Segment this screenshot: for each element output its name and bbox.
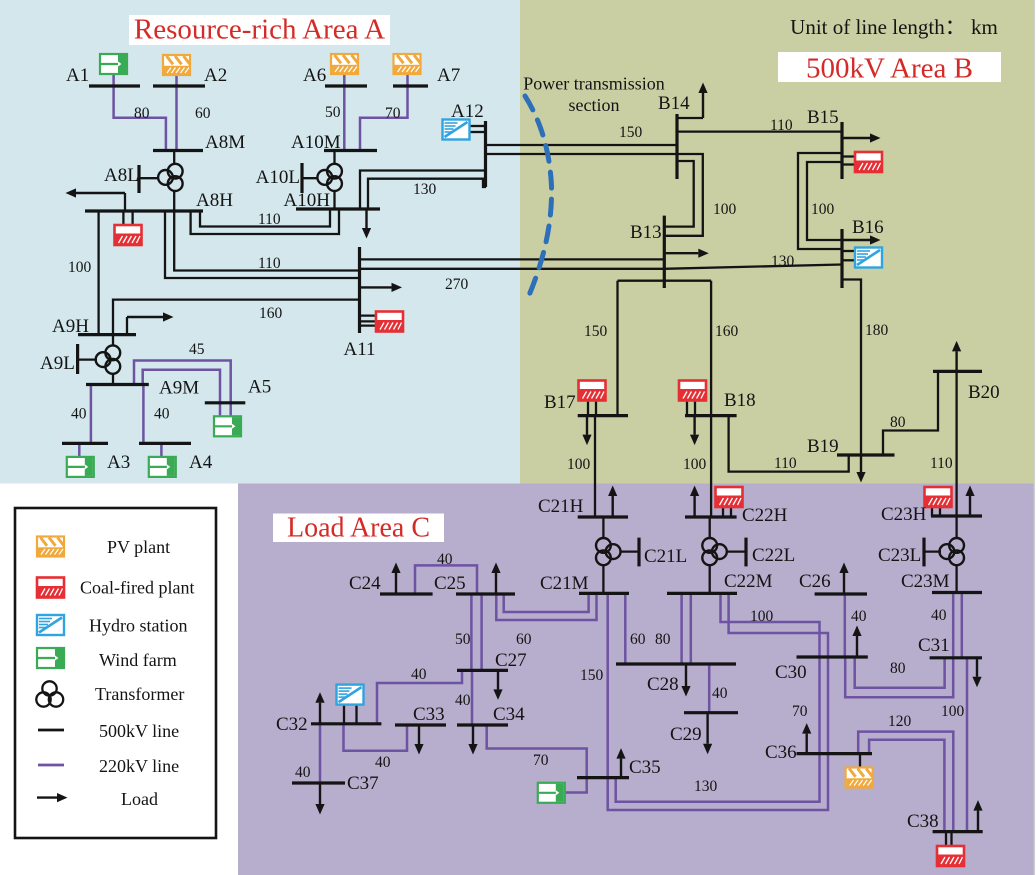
svg-text:Load: Load [121,789,158,809]
svg-text:45: 45 [189,341,205,358]
coal-fired plant at B18 [679,381,706,401]
bus C22H [685,515,737,518]
load arrow on C26 [839,563,848,595]
load arrow on B19 (down) [856,455,865,483]
wire C30 to C31 circuit inner (80, 220kV) [855,657,945,688]
wind farm at A4 [149,457,176,477]
right edge line [1034,0,1035,875]
svg-text:40: 40 [712,685,728,702]
bus C28 [616,662,736,665]
svg-text:Wind farm: Wind farm [99,650,177,670]
bus C23L [922,538,925,567]
svg-text:B20: B20 [968,382,1000,403]
svg-text:100: 100 [683,456,707,473]
wire C31 to C38 (100, 220kV) [966,658,969,832]
bus C21M [579,592,629,595]
svg-text:40: 40 [71,406,87,423]
load arrow on C27 (down) [493,670,502,700]
load arrow on B16 [842,235,881,244]
load arrow on C22H [690,486,699,518]
svg-text:C38: C38 [907,811,939,832]
hydro station at B16 [855,248,882,268]
background Area C (purple) [238,484,1034,875]
wind farm at A3 [67,457,94,477]
legend transformer icon [36,681,63,706]
bus A8M [153,149,203,152]
bus B19 [837,453,895,456]
bus B20 [933,370,982,373]
svg-text:section: section [569,95,620,115]
wire B18 to B19 (110, 500kV) [729,416,849,472]
svg-text:A8H: A8H [196,190,233,211]
load arrow on C32 [315,692,324,724]
svg-text:A10M: A10M [291,132,341,153]
svg-text:C22H: C22H [742,505,788,526]
svg-text:100: 100 [713,201,737,218]
wire C25 to C27 circuit 1 (50, 220kV) [470,594,473,670]
wire B14 to B13 circuit 1 (100, 500kV) [664,161,693,227]
bus A5 [205,401,246,404]
wire A10M bus to transformer A10 [333,151,335,166]
svg-text:C28: C28 [647,674,679,695]
load arrow on C37 (down) [315,783,324,815]
wire A3 bus to wind farm stub [78,443,81,457]
svg-text:110: 110 [930,455,953,472]
bus A4 [139,442,191,445]
wire A1 to A8M (80, 220kV) [114,74,166,151]
background Area B (olive) [520,0,1034,484]
svg-text:A8L: A8L [104,165,139,186]
svg-text:C36: C36 [765,742,797,763]
wire transformer C23 to C23M [955,564,957,593]
wire C21H to transformer C21 [602,517,604,539]
bus C21L [637,538,640,567]
wire A8H to coal plant stub 1 [122,211,124,225]
wire A8H to A10H circuit 2 (500kV) [191,209,339,234]
svg-text:C29: C29 [670,724,702,745]
bus C30 [797,655,868,658]
wire B18 to C22H (100, 500kV) [710,416,712,517]
svg-text:150: 150 [580,667,604,684]
legend wind farm icon [37,648,64,668]
wire A2 to A8M (60, 220kV) [175,75,178,151]
wire C32 hydro stub 1 [343,705,345,724]
bus C23M [932,591,982,594]
svg-text:60: 60 [195,105,211,122]
bus C22L [744,538,747,567]
coal-fired plant at C22H [716,487,743,507]
wire C24 to C25 (40, 220kV) [415,565,477,594]
svg-text:160: 160 [259,305,283,322]
svg-text:B13: B13 [630,222,662,243]
load arrow on B20 [952,341,961,372]
PV plant at A2 [163,55,190,75]
bus C38 [933,830,983,833]
wire B13 to B17/B18 header (500kV) [618,280,712,282]
legend box [15,508,216,838]
bus C35 [577,776,629,779]
load arrow on C31 (down) [972,658,981,688]
svg-text:Coal-fired plant: Coal-fired plant [80,578,194,598]
load arrow on C28 (down) [681,664,690,697]
svg-text:150: 150 [619,124,643,141]
load arrow on C35 [616,748,625,778]
bus A1 [89,84,140,87]
svg-text:80: 80 [655,631,671,648]
svg-text:40: 40 [437,551,453,568]
wire A9H bus to transformer A9 [112,335,114,346]
svg-text:40: 40 [455,692,471,709]
load arrow on C21H [608,486,617,518]
svg-text:50: 50 [325,104,341,121]
svg-text:100: 100 [750,608,774,625]
bus B18 [685,414,737,417]
wire B16 to B19 (180, 500kV) [842,280,861,456]
wire A10H to A12 circuit 1 (130, 500kV) [360,171,486,210]
svg-text:110: 110 [774,455,797,472]
wire B17 to C21H (100, 500kV) [594,416,596,517]
bus C25 [456,592,515,595]
hydro station at C32 [337,685,364,705]
coal-fired plant at C23H [925,487,952,507]
svg-text:70: 70 [792,703,808,720]
legend 500kV line sample [38,729,64,732]
bus A2 [153,84,205,87]
bus A8L [137,165,140,193]
wire C21M to C28 (60, 220kV) [624,593,627,664]
power transmission section dashed curve [525,96,552,300]
svg-text:A12: A12 [451,101,484,122]
wire B18 coal stub 2 [694,401,696,416]
wire transformer C23 to C23L bar [924,550,941,552]
svg-text:B18: B18 [724,390,756,411]
wire A7 to A10M (70, 220kV) [360,75,408,151]
svg-text:80: 80 [890,414,906,431]
bus B15 [840,122,843,179]
svg-text:C31: C31 [918,635,950,656]
wire A8H riser to left load [124,193,126,211]
wire B17 coal stub 1 [587,401,589,416]
wire C38 coal stub 1 [945,832,947,846]
wind farm at A5 [214,416,241,436]
wire A9M to A5 circuit 2 (220kV) [143,370,220,417]
wire transformer C21 to C21L bar [620,550,639,552]
wire C32 hydro stub 2 [355,705,357,724]
wire B15 coal stub 1 [842,155,855,157]
wire A9L bar to transformer A9 [78,358,97,360]
bus C26 [815,592,867,595]
coal-fired plant at B17 [579,381,606,401]
svg-text:PV plant: PV plant [107,537,170,557]
bus A11 [358,247,361,333]
svg-text:B19: B19 [807,436,839,457]
svg-text:100: 100 [941,703,965,720]
wire B16 hydro stub 2 [842,259,855,261]
wire C28 to C29 (40, 220kV) [708,664,711,713]
svg-text:C37: C37 [347,773,379,794]
bus A12 [484,121,487,187]
wire A12 to B14-B13 circuit 2 (500kV) [486,154,703,236]
svg-text:50: 50 [455,631,471,648]
svg-text:C27: C27 [495,650,527,671]
bus A6 [325,84,367,87]
bus C34 [457,723,508,726]
svg-text:C21M: C21M [540,573,589,594]
title box Area B [778,52,1001,82]
wire header to B18 (160, 500kV) [710,281,712,416]
wire C27 to C34 (40, 220kV) [471,670,474,725]
svg-text:220kV line: 220kV line [99,756,179,776]
wire A11 coal stub 1 [360,314,376,316]
svg-text:40: 40 [931,607,947,624]
wire A11 coal stub 2 [360,320,376,322]
transformer A10 [317,164,342,191]
svg-text:C21H: C21H [538,496,584,517]
svg-text:A4: A4 [189,452,213,473]
wire A9M to A5 circuit 1 (45, 220kV) [134,361,231,417]
svg-text:Resource-rich Area A: Resource-rich Area A [134,14,385,46]
svg-text:C21L: C21L [644,546,687,567]
svg-text:Load Area C: Load Area C [287,513,430,544]
load arrow on A10H (down) [362,209,371,239]
wire B14 riser to load [677,117,703,119]
load arrow on C23H [965,486,974,517]
svg-text:C22L: C22L [752,545,795,566]
wire C27 to C32 (40, 220kV) [377,670,462,723]
svg-text:A10L: A10L [256,167,300,188]
bus B14 [675,114,678,179]
wire C36 to C38 circuit outer (120, 220kV) [858,732,953,832]
wire A6 to A10M (50, 220kV) [343,75,346,151]
wire C23M through C31 to C30 circuit outer (40/80, 220kV) [845,593,953,698]
title box Load Area C [273,514,444,543]
PV plant at C36 [846,768,873,788]
wire transformer C22 to C22M [709,564,711,593]
load arrow on B17 (down) [582,416,591,446]
legend load arrow sample [37,793,68,802]
wire C25 to C21M circuit inner (220kV) [504,593,589,612]
load arrow on B15 [842,133,881,142]
svg-text:A11: A11 [344,339,376,360]
bus A9L [76,344,79,374]
svg-text:130: 130 [771,253,795,270]
load arrow on C25 [491,563,500,595]
bus C37 [292,781,345,784]
bus C33 [395,723,446,726]
PV plant at A7 [394,54,421,74]
load arrow on C34 (down) [468,725,477,755]
svg-text:C30: C30 [775,662,807,683]
wire C23M to C31 (40, 220kV) [961,593,964,658]
svg-text:C35: C35 [629,757,661,778]
wire B15 coal stub 2 [842,163,855,165]
svg-text:A8M: A8M [205,132,245,153]
svg-text:70: 70 [533,752,549,769]
transformer A8 [158,164,183,191]
svg-text:A10H: A10H [284,190,331,211]
svg-text:70: 70 [385,105,401,122]
bus B13 [663,216,666,288]
svg-text:120: 120 [888,713,912,730]
bus C36 [797,752,873,755]
wire A9H to A11 (160, 500kV) [113,300,360,335]
load arrow on A8H (left) [66,188,126,197]
wire A8H to A9H (100, 500kV) [97,211,99,335]
legend 220kV line sample [38,764,64,767]
wire C22H to transformer C22 [709,517,711,539]
wire C35 long loop via C30 to C22M (130/100, 220kV) [616,593,820,801]
svg-text:C23H: C23H [881,504,927,525]
svg-text:130: 130 [694,778,718,795]
wire B16 hydro stub 1 [842,250,855,252]
transformer C23 [940,538,964,565]
svg-text:40: 40 [411,666,427,683]
coal-fired plant at B15 [855,152,882,172]
svg-text:110: 110 [770,117,793,134]
PV plant at A6 [331,54,358,74]
background Area A (blue) [0,0,520,484]
wire C32 to C33 (40, 220kV) [344,724,408,751]
wire header to B17 (150, 500kV) [616,281,618,416]
bus A10L [300,163,303,193]
svg-text:60: 60 [630,631,646,648]
wire A11 coal stub 3 [360,324,376,326]
svg-text:C24: C24 [349,573,381,594]
wire A8H to A11 circuit 2 (500kV) [165,211,360,278]
svg-text:C22M: C22M [724,571,773,592]
svg-text:500kV line: 500kV line [99,721,179,741]
svg-text:A9L: A9L [40,353,75,374]
bus C31 [930,656,982,659]
transformer C21 [596,538,620,565]
wire A9M to A4 (40, 220kV) [142,385,145,444]
svg-text:100: 100 [68,259,92,276]
transformer C22 [702,538,727,565]
load arrow on A9H [127,312,174,321]
load arrow on C24 [391,563,400,595]
bus A10H [296,207,380,210]
svg-text:B15: B15 [807,107,839,128]
bus C22M [667,592,737,595]
wire B13 to B16 (130, 500kV) [664,265,842,269]
wire C36 PV stub [859,754,861,768]
svg-text:A7: A7 [437,65,460,86]
wire transformer A9 to A9M bus [112,373,114,385]
svg-text:A9H: A9H [52,316,89,337]
wire C22H coal stub 2 [730,507,732,518]
svg-text:160: 160 [715,323,739,340]
wire C38 coal stub 2 [950,832,952,846]
bus A9H [78,333,136,336]
wire B17 coal stub 2 [595,401,597,416]
wire A11 to B13 circuit 2 (270, 500kV) [360,268,665,270]
svg-text:B16: B16 [852,217,884,238]
coal-fired plant at A8H [115,225,142,245]
svg-text:40: 40 [154,406,170,423]
svg-text:A3: A3 [107,452,130,473]
wire C32 to C37 (40, 220kV) [319,724,322,783]
svg-text:100: 100 [567,456,591,473]
svg-text:C23L: C23L [878,545,921,566]
load arrow on C33 (down) [414,725,423,755]
bus A8H [85,209,203,212]
wire C22M to C28 circuit 1 (80, 220kV) [680,593,683,664]
svg-text:100: 100 [811,201,835,218]
svg-text:A2: A2 [204,65,227,86]
wire C22M to C28 circuit 2 (220kV) [690,593,693,664]
wire A8H to A10H circuit 1 (110, 500kV) [200,209,330,227]
wire B15 to B16 circuit 1 (100, 500kV) [798,153,842,249]
wire C23H coal stub 2 [939,507,941,517]
legend PV plant icon [37,537,64,557]
bus C23H [931,514,982,517]
load arrow on B18 (down) [690,416,699,446]
svg-text:A9M: A9M [159,378,199,399]
svg-text:C34: C34 [493,704,525,725]
legend hydro station icon [37,615,64,635]
wire C34 to C35 wind farm (70, 220kV) [487,725,587,793]
bus B16 [840,229,843,288]
wire A12 hydro stub 1 [470,125,486,127]
wire A11 to B13 circuit 1 (500kV) [360,258,665,260]
wire C25 to C21M circuit outer (60, 220kV) [496,593,596,620]
svg-text:C23M: C23M [901,571,950,592]
svg-text:180: 180 [865,322,889,339]
wire B20 to C23H (110, 500kV) [955,371,957,516]
svg-text:110: 110 [258,211,281,228]
svg-text:80: 80 [890,660,906,677]
svg-text:C32: C32 [276,714,308,735]
wire C36 to C38 circuit inner (220kV) [869,740,944,832]
wire A9M to A3 (40, 220kV) [90,385,93,444]
bus C21H [578,515,628,518]
bus A10M [324,149,377,152]
coal-fired plant at C38 [937,846,964,866]
wire A10L bar to transformer A10 [302,177,319,179]
wire transformer A10 to A10H bus [333,190,335,209]
load arrow on C38 [973,800,982,832]
wire A4 bus to wind farm stub [160,443,163,457]
svg-text:130: 130 [413,181,437,198]
legend coal-fired plant icon [37,578,64,598]
svg-text:500kV Area B: 500kV Area B [806,53,973,85]
wire C21M long loop via C35/C36 (150, 220kV) [608,593,828,810]
bus C27 [457,669,508,672]
wire B19 to B20 (80, 500kV) [883,371,938,455]
svg-text:Transformer: Transformer [95,684,184,704]
wire C23H coal stub 1 [931,507,933,517]
wire transformer A8 to A8H bus [173,190,175,211]
wire B15 to B16 circuit 2 (500kV) [807,162,842,240]
svg-text:C26: C26 [799,571,831,592]
wire transformer C22 to C22L bar [726,550,746,552]
load arrow on C30 [852,626,861,658]
svg-text:60: 60 [516,631,532,648]
load arrow on A11 [360,283,403,292]
coal-fired plant at A11 [376,312,403,332]
bus C32 [311,722,381,725]
svg-text:B14: B14 [658,93,690,114]
bus A7 [393,84,428,87]
wire transformer C21 to C21M [602,564,604,593]
svg-text:Hydro station: Hydro station [89,616,188,636]
wire A8M bus to transformer A8 [173,151,175,166]
svg-text:A1: A1 [66,65,89,86]
svg-text:110: 110 [258,255,281,272]
bus A3 [62,442,108,445]
load arrow on B14 [698,83,707,119]
svg-text:Unit of line length： km: Unit of line length： km [790,15,998,39]
